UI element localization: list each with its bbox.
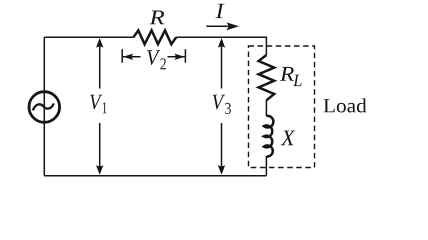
resistor R zigzag [133,30,176,44]
V1 arrow upper [99,40,101,89]
source circle [29,92,60,123]
V2 right tick [184,49,186,63]
V2 left tick [121,49,123,63]
wire top-right segment [176,36,266,38]
wire bottom [44,175,266,177]
V2 left arrow [123,56,141,58]
label V3 [213,95,226,110]
label RL [280,67,294,81]
wire between RL and X [265,100,267,116]
wire below coil [265,156,267,176]
V3 arrow lower [221,123,223,173]
label R [149,11,164,25]
wire left [43,37,45,175]
label Load [324,98,367,112]
V2 right arrow [168,56,185,58]
current arrow I [206,25,228,27]
V1 arrow lower [99,123,101,173]
wire top-left segment [44,36,133,38]
resistor RL zigzag [259,55,275,100]
inductor X coil [264,116,274,157]
wire right branch upper [265,37,267,55]
label V1 [90,95,102,110]
label I [216,4,225,18]
V3 arrow upper [221,40,223,89]
load dashed box [249,46,315,168]
label V2 [147,50,160,65]
label X [281,131,296,146]
source sine tilde [33,104,53,109]
